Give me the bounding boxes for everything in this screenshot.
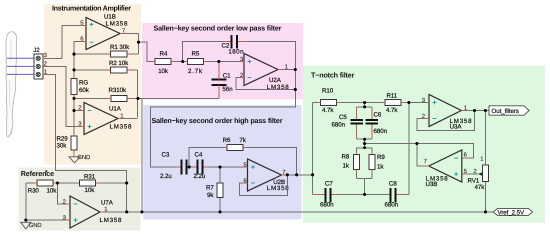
- C5/C6 parallel frame: [357, 103, 373, 144]
- wire U1B output down right side: [125, 34, 139, 55]
- wire R11 to U3A pin3: [425, 102, 428, 104]
- resistor R31: [80, 174, 127, 194]
- svg-text:2: 2: [44, 60, 47, 67]
- svg-text:C4: C4: [195, 152, 203, 159]
- svg-text:2.2u: 2.2u: [194, 173, 206, 180]
- svg-text:R30: R30: [28, 187, 40, 194]
- ground below reference: [21, 222, 42, 229]
- svg-text:9k: 9k: [207, 192, 214, 199]
- svg-text:C1: C1: [223, 73, 231, 80]
- wire J2 pin2 to U1A pin3: [47, 66, 80, 126]
- block: Instrumentation Amplifier: [44, 4, 141, 165]
- capacitor C4: [194, 152, 242, 181]
- svg-text:U1A: U1A: [109, 106, 122, 113]
- resistor R30: [26, 180, 80, 194]
- wire RG bottom node bus: [73, 98, 75, 134]
- wire C3 to C4: [191, 166, 194, 168]
- svg-text:C6: C6: [374, 111, 382, 118]
- svg-text:R4: R4: [160, 51, 168, 58]
- svg-text:R8: R8: [342, 153, 350, 160]
- svg-text:R6: R6: [223, 137, 231, 144]
- capacitor C7: [313, 181, 388, 209]
- svg-text:U7A: U7A: [101, 199, 114, 206]
- resistor R11: [381, 93, 427, 114]
- svg-text:Out_filters: Out_filters: [492, 108, 519, 115]
- capacitor C1: [212, 62, 234, 99]
- svg-text:GND: GND: [77, 154, 90, 161]
- svg-text:R11: R11: [387, 93, 398, 100]
- svg-text:Instrumentation Amplifier: Instrumentation Amplifier: [52, 4, 131, 13]
- svg-text:2.7k: 2.7k: [188, 68, 203, 75]
- wire U1A output to R2/R3 node: [123, 118, 138, 120]
- svg-text:680n: 680n: [332, 122, 346, 129]
- electrode wires (blue): [7, 58, 34, 74]
- resistor R6: [223, 137, 297, 175]
- svg-text:Sallen−key second order low pa: Sallen−key second order low pass filter: [154, 23, 282, 32]
- svg-text:180n: 180n: [228, 49, 244, 56]
- op-amp U2A: [240, 54, 290, 91]
- svg-text:Sallen−key second order high p: Sallen−key second order high pass filter: [152, 116, 283, 125]
- svg-text:T−notch filter: T−notch filter: [311, 70, 355, 79]
- capacitor C3: [160, 152, 192, 181]
- wire branch to low pass input: [139, 42, 152, 61]
- wire R30 left down to ground: [25, 183, 27, 222]
- wire J2 pin3 to U1B pin5: [47, 25, 82, 58]
- wire U2A output: [150, 61, 295, 167]
- block: T-notch filter: [303, 66, 545, 223]
- svg-text:R2 10k: R2 10k: [109, 60, 129, 67]
- wire U2B pin5: [242, 166, 244, 168]
- svg-text:2: 2: [473, 168, 476, 175]
- output label Out_filters: [489, 106, 529, 115]
- resistor R1: [74, 44, 139, 57]
- capacitor C8: [385, 181, 409, 209]
- bootstrap wire to U3B: [365, 144, 425, 167]
- svg-text:4.7k: 4.7k: [386, 107, 398, 114]
- svg-text:10k: 10k: [47, 187, 58, 194]
- wire U2A feedback loop: [236, 78, 295, 90]
- block: Reference: [19, 168, 141, 231]
- R8/R9 parallel frame: [357, 144, 373, 195]
- svg-text:47k: 47k: [475, 184, 486, 191]
- svg-text:R310k: R310k: [109, 87, 127, 94]
- wire C3C4 node up to R6: [189, 148, 223, 168]
- wire U1A pin2 from RG bus: [74, 110, 80, 112]
- svg-text:7k: 7k: [239, 137, 246, 144]
- svg-text:LM358: LM358: [100, 217, 123, 224]
- op-amp U1A: [78, 103, 132, 135]
- svg-text:C8: C8: [389, 181, 397, 188]
- svg-text:7: 7: [424, 158, 427, 165]
- wire midnode up to C2: [183, 42, 224, 62]
- svg-text:C5: C5: [339, 114, 347, 121]
- svg-text:680n: 680n: [374, 128, 388, 135]
- op-amp U2B: [243, 159, 289, 192]
- svg-text:30k: 30k: [57, 142, 68, 149]
- svg-text:56n: 56n: [222, 86, 233, 93]
- notch output vertical (C8 to R11 node): [408, 103, 410, 195]
- svg-text:Vref_2.5V: Vref_2.5V: [498, 209, 526, 216]
- wire R2 right to U1A output: [137, 70, 139, 118]
- wire U3B pin5 to RV1 wiper: [466, 173, 478, 175]
- svg-text:GND: GND: [29, 222, 42, 229]
- wire R30/R31 node down to U7A pin2: [58, 183, 66, 204]
- block: Sallen-key low pass filter: [142, 23, 303, 100]
- capacitor C2: [222, 35, 296, 61]
- svg-text:Reference: Reference: [21, 169, 54, 178]
- svg-text:U3A: U3A: [450, 124, 463, 131]
- wire U1B pin6 feedback bus: [74, 42, 82, 75]
- resistor R8: [342, 153, 360, 169]
- svg-text:LM358: LM358: [106, 20, 129, 27]
- svg-text:2.2u: 2.2u: [160, 173, 172, 180]
- svg-text:C7: C7: [325, 181, 333, 188]
- svg-text:R5: R5: [192, 51, 200, 58]
- op-amp U3A: [422, 95, 473, 131]
- resistor R10: [313, 87, 381, 114]
- vref label: [493, 208, 532, 216]
- svg-text:1: 1: [44, 68, 47, 75]
- reference rail Vref: [100, 211, 494, 213]
- wire U3B feedback over top: [417, 144, 473, 159]
- svg-text:LM358: LM358: [267, 185, 290, 192]
- wire U2B output to notch input: [286, 174, 313, 176]
- wire R5 to U2A pin3: [239, 61, 242, 63]
- capacitor C6: [366, 111, 388, 134]
- wire U7A pin3: [26, 219, 66, 221]
- wire U2B feedback loop: [240, 175, 288, 196]
- block: Sallen-key high pass filter: [143, 105, 301, 220]
- wire U3A output to label: [466, 110, 489, 112]
- svg-text:R10: R10: [322, 87, 334, 94]
- svg-text:680n: 680n: [385, 202, 399, 209]
- svg-text:J2: J2: [33, 47, 40, 54]
- wire C1 return to Vref: [142, 98, 219, 211]
- resistor R7: [206, 167, 223, 212]
- svg-text:U3B: U3B: [426, 181, 438, 188]
- wire U3A feedback loop: [417, 111, 475, 131]
- connector J2: [33, 47, 47, 79]
- svg-text:1: 1: [104, 206, 107, 213]
- svg-text:R29: R29: [57, 135, 69, 142]
- svg-text:R1 30k: R1 30k: [110, 44, 130, 51]
- resistor R3: [74, 87, 142, 101]
- op-amp U7A: [63, 196, 123, 228]
- ground below R29: [69, 154, 90, 163]
- resistor R5: [184, 51, 240, 76]
- svg-text:10k: 10k: [158, 68, 169, 75]
- svg-text:4.7k: 4.7k: [322, 107, 334, 114]
- resistor R29: [57, 134, 78, 157]
- svg-text:60k: 60k: [79, 87, 90, 94]
- notch input vertical: [312, 103, 314, 195]
- svg-text:LM358: LM358: [110, 124, 133, 131]
- svg-text:10k: 10k: [85, 187, 96, 194]
- capacitor C5: [332, 114, 364, 129]
- potentiometer RV1: [468, 111, 489, 212]
- op-amp U1B: [80, 14, 128, 50]
- resistor R4: [151, 51, 184, 76]
- svg-text:2: 2: [63, 199, 66, 206]
- svg-text:C3: C3: [162, 152, 170, 159]
- svg-text:1k: 1k: [343, 163, 350, 170]
- arm sketch: [6, 32, 17, 137]
- svg-text:1: 1: [480, 155, 483, 162]
- svg-text:680n: 680n: [320, 202, 334, 209]
- svg-text:1k: 1k: [377, 163, 384, 170]
- svg-text:R9: R9: [377, 154, 385, 161]
- op-amp U3B (mirrored): [424, 150, 468, 188]
- resistor R9: [369, 154, 385, 170]
- svg-text:R7: R7: [206, 185, 214, 192]
- resistor RG: [71, 75, 90, 99]
- svg-text:RG: RG: [79, 79, 88, 86]
- resistor R2: [74, 60, 138, 73]
- wire J2 pin1 to reference output node: [47, 74, 127, 212]
